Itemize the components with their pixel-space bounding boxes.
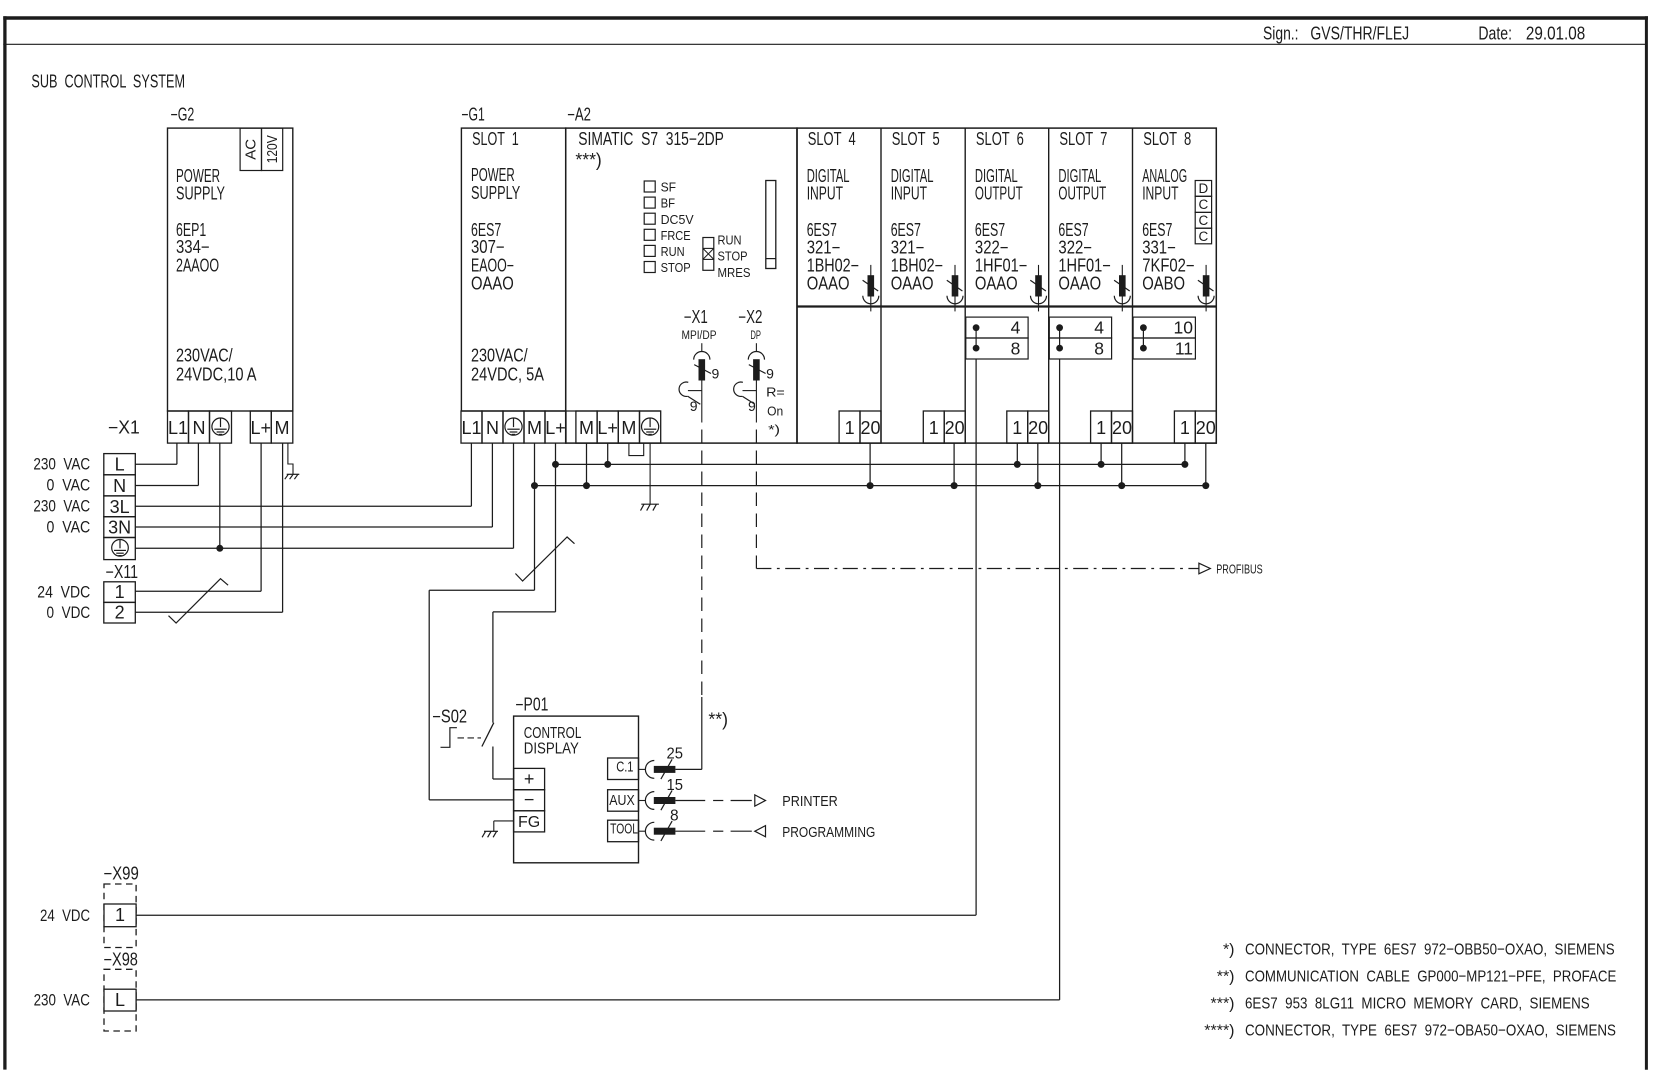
wire 3L: X1.3L to G1.L1 [135, 443, 471, 506]
svg-text:D: D [1199, 181, 1209, 196]
svg-text:INPUT: INPUT [807, 184, 843, 204]
svg-text:M: M [527, 418, 542, 438]
svg-text:L1: L1 [168, 418, 188, 438]
terminal L1 of G2 [168, 411, 189, 443]
svg-text:1HF01−: 1HF01− [1058, 256, 1110, 276]
pin label 9 at X2 socket [748, 398, 756, 414]
svg-text:SLOT 1: SLOT 1 [472, 129, 519, 149]
net label 230 VAC (L) [33, 455, 90, 473]
terminal PE of A2 (earth) [640, 411, 661, 443]
net label 24 VDC (X99) [40, 907, 90, 925]
svg-text:L+: L+ [597, 418, 618, 438]
net label PROFIBUS [1216, 562, 1263, 577]
svg-text:−X11: −X11 [106, 562, 139, 582]
svg-text:−X98: −X98 [104, 950, 138, 970]
svg-text:1: 1 [1012, 418, 1022, 438]
svg-text:322−: 322− [975, 238, 1009, 258]
svg-text:L1: L1 [461, 418, 481, 438]
svg-text:BF: BF [661, 196, 676, 211]
arrow to PROGRAMMING [755, 826, 766, 837]
svg-text:OAAO: OAAO [807, 274, 850, 294]
svg-text:230VAC/: 230VAC/ [471, 346, 528, 366]
port C.1 of P01 [608, 758, 676, 780]
wire PE: X1.PE to G2.PE and G1.PE [135, 443, 513, 548]
junction SLOT5.20 [951, 482, 958, 489]
wire SLOT8.1 to L+ bus [1184, 443, 1186, 464]
port AUX of P01 [608, 790, 676, 812]
svg-text:−P01: −P01 [515, 695, 548, 715]
svg-text:MPI/DP: MPI/DP [682, 330, 717, 342]
A2 mode switch RUN/STOP/MRES [703, 233, 751, 280]
wire SLOT4.20 to M bus [869, 443, 871, 486]
terminal strip X1 [104, 418, 140, 560]
pin count 15 at AUX [667, 777, 684, 794]
svg-text:9: 9 [748, 398, 756, 414]
terminal + of P01 [514, 768, 545, 789]
net label 230 VAC (3L) [33, 497, 90, 515]
svg-text:SF: SF [661, 180, 677, 195]
wire SLOT5.20 to M bus [953, 443, 955, 486]
svg-text:230VAC/: 230VAC/ [176, 346, 233, 366]
svg-text:AUX: AUX [609, 792, 634, 809]
wire SLOT8.20 to M bus [1205, 443, 1207, 486]
svg-text:RUN: RUN [661, 244, 685, 259]
svg-text:20: 20 [860, 418, 880, 438]
svg-text:N: N [113, 476, 126, 496]
svg-text:20: 20 [945, 418, 965, 438]
svg-text:R=: R= [766, 386, 785, 400]
svg-text:321−: 321− [891, 238, 925, 258]
svg-text:24 VDC: 24 VDC [40, 907, 90, 925]
junction G1.M on M bus [531, 482, 538, 489]
terminal 20 of SLOT 7 [1112, 411, 1133, 443]
wire X98.L to SLOT7 output 8 [136, 999, 1060, 1001]
svg-text:−G2: −G2 [171, 104, 195, 124]
wire 3N: X1.3N to G1.N [135, 443, 492, 527]
svg-text:20: 20 [1028, 418, 1048, 438]
svg-text:0 VAC: 0 VAC [47, 476, 91, 494]
terminal M of G1 [524, 411, 545, 443]
junction SLOT7.1 [1098, 461, 1105, 468]
svg-text:AC: AC [243, 139, 260, 160]
svg-text:L+: L+ [545, 418, 566, 438]
svg-text:Sign.:: Sign.: [1263, 24, 1299, 44]
footnote ***) memory card [1210, 995, 1589, 1012]
svg-text:L: L [115, 455, 125, 475]
svg-text:STOP: STOP [718, 249, 748, 264]
wire L: X1.L to G2.L1 [135, 443, 177, 464]
bus rail L+ 24V [556, 463, 1186, 465]
svg-text:OAAO: OAAO [891, 274, 934, 294]
switch S02 (NO contact) [432, 707, 513, 779]
svg-text:SIMATIC S7 315−2DP: SIMATIC S7 315−2DP [578, 129, 724, 149]
svg-text:PRINTER: PRINTER [782, 794, 838, 810]
ground wire at P01.FG [482, 821, 513, 837]
svg-text:DC5V: DC5V [661, 212, 694, 227]
wire A2.M to M bus [586, 443, 588, 486]
svg-text:STOP: STOP [661, 260, 691, 275]
svg-text:FG: FG [518, 814, 540, 831]
pin label 9 at X1 plug [712, 366, 720, 382]
IO module SLOT 4 (DIGITAL INPUT) text [807, 129, 859, 293]
wire A2.L+ to L+ bus [607, 443, 609, 464]
svg-text:*): *) [1223, 941, 1235, 958]
svg-text:**): **) [708, 710, 728, 730]
svg-text:M: M [579, 418, 594, 438]
terminal 1 of SLOT 7 [1091, 411, 1112, 443]
svg-text:CONTROL: CONTROL [524, 725, 582, 742]
svg-text:OAAO: OAAO [471, 274, 514, 294]
svg-text:24VDC, 5A: 24VDC, 5A [471, 364, 544, 384]
terminal strip X11 [104, 562, 138, 623]
terminal L+ of G2 [250, 411, 271, 443]
svg-text:OAAO: OAAO [975, 274, 1018, 294]
svg-text:9: 9 [712, 366, 720, 382]
address tags 4/8 of SLOT 6 with wire down [966, 317, 1028, 915]
svg-text:−: − [524, 789, 535, 809]
svg-text:−X1: −X1 [684, 307, 708, 327]
front connector plug of SLOT 4 [863, 265, 879, 312]
port TOOL of P01 [608, 820, 676, 842]
terminal FG of P01 [514, 811, 545, 832]
svg-text:1BH02−: 1BH02− [891, 256, 943, 276]
terminal 20 of SLOT 4 [860, 411, 881, 443]
svg-text:FRCE: FRCE [661, 228, 691, 243]
power supply G1 (SLOT 1, 6ES7 307-EAOO-OAAO) [461, 104, 565, 411]
terminal 1 of SLOT 6 [1007, 411, 1028, 443]
net label 0 VAC (3N) [47, 518, 91, 536]
control display P01 [514, 695, 639, 863]
bus rail M 0V [535, 485, 1206, 487]
A2 micro memory card slot [766, 181, 776, 269]
connector X1 MPI/DP of A2 [679, 307, 717, 423]
cable marker across X11 feed wires [169, 579, 229, 623]
IO module SLOT 8 (ANALOG INPUT) text [1142, 129, 1194, 293]
svg-text:24VDC,10 A: 24VDC,10 A [176, 364, 257, 384]
node: drawing title SUB CONTROL SYSTEM [31, 72, 185, 92]
svg-text:***): ***) [1210, 995, 1234, 1012]
connector X2 DP of A2 [734, 307, 766, 423]
terminal 20 of SLOT 8 [1195, 411, 1216, 443]
terminal PE of G1 (earth) [503, 411, 524, 443]
terminal 1 of SLOT 5 [923, 411, 944, 443]
svg-text:321−: 321− [807, 238, 841, 258]
svg-text:6ES7 953 8LG11 MICRO MEMOR: 6ES7 953 8LG11 MICRO MEMORY CARD, SIEMEN… [1245, 995, 1590, 1012]
junction SLOT6.1 [1014, 461, 1021, 468]
junction SLOT8.20 [1202, 482, 1209, 489]
svg-text:SUPPLY: SUPPLY [471, 183, 520, 203]
rack backplane divider line [797, 305, 1216, 307]
terminal M (1st) of A2 [576, 411, 597, 443]
printer cable from AUX [675, 800, 751, 802]
svg-text:−A2: −A2 [567, 104, 591, 124]
svg-text:−X2: −X2 [738, 307, 762, 327]
front connector plug of SLOT 7 [1114, 265, 1130, 312]
terminal 1 of SLOT 8 [1174, 411, 1195, 443]
svg-text:C.1: C.1 [616, 759, 633, 776]
svg-text:4: 4 [1011, 318, 1021, 338]
svg-text:DP: DP [750, 330, 761, 342]
svg-text:***): ***) [575, 150, 601, 170]
svg-text:230 VAC: 230 VAC [33, 455, 90, 473]
terminal X98 (230 VAC feed) [104, 950, 138, 1031]
wire SLOT7.20 to M bus [1121, 443, 1123, 486]
svg-text:230 VAC: 230 VAC [33, 497, 90, 515]
svg-text:120V: 120V [264, 135, 281, 163]
MPI cable from X1 to C.1 [675, 430, 701, 770]
svg-text:RUN: RUN [718, 233, 742, 248]
svg-text:8: 8 [1011, 339, 1021, 359]
junction G1.L+ on L+ bus [552, 461, 559, 468]
wire G1.M down to control display minus [429, 443, 534, 800]
svg-text:**): **) [1217, 969, 1235, 986]
IO module rack slots 4-8 outline [797, 128, 1216, 443]
svg-text:SLOT 4: SLOT 4 [808, 129, 856, 149]
terminal N of G1 [482, 411, 503, 443]
power supply G2 (6EP1 334-2AAOO) [168, 104, 293, 411]
net label 24 VDC (X11.1) [37, 583, 90, 601]
pin label 9 at X2 plug [766, 366, 774, 382]
svg-text:−S02: −S02 [432, 707, 467, 727]
svg-text:230 VAC: 230 VAC [34, 991, 90, 1009]
wire SLOT7.1 to L+ bus [1100, 443, 1102, 464]
net label 0 VAC (N) [47, 476, 91, 494]
pin label 9 at X1 socket [690, 398, 698, 414]
svg-text:SLOT 6: SLOT 6 [976, 129, 1024, 149]
svg-text:1: 1 [115, 905, 125, 925]
svg-text:3L: 3L [110, 497, 130, 517]
svg-text:POWER: POWER [471, 165, 515, 185]
svg-text:SLOT 5: SLOT 5 [892, 129, 940, 149]
svg-text:INPUT: INPUT [1142, 184, 1178, 204]
svg-text:15: 15 [667, 777, 684, 794]
arrow to PRINTER [755, 795, 766, 806]
svg-text:L+: L+ [251, 418, 272, 438]
svg-text:OAAO: OAAO [1058, 274, 1101, 294]
note **) communication cable [708, 710, 728, 730]
svg-text:2AAOO: 2AAOO [176, 256, 219, 276]
terminal M of G2 [271, 411, 293, 443]
wire G1.L+ down to switch S02 [493, 443, 556, 723]
terminal - of P01 [514, 789, 545, 811]
terminal X99 (24 VDC feed) [104, 864, 139, 948]
svg-text:1HF01−: 1HF01− [975, 256, 1027, 276]
svg-text:2: 2 [115, 603, 125, 623]
svg-text:7KF02−: 7KF02− [1142, 256, 1194, 276]
svg-text:334−: 334− [176, 237, 210, 257]
svg-text:PROFIBUS: PROFIBUS [1216, 562, 1263, 577]
address tags 10/11 of SLOT 8 [1133, 317, 1195, 359]
A2 status LEDs SF/BF/DC5V/FRCE/RUN/STOP [644, 180, 694, 276]
cable marker across control display supply wires [515, 537, 574, 581]
svg-text:On: On [767, 404, 783, 418]
junction A2.M on M bus [583, 482, 590, 489]
net label 230 VAC (X98) [34, 991, 90, 1009]
svg-text:−X1: −X1 [108, 418, 140, 438]
svg-text:GVS/THR/FLEJ: GVS/THR/FLEJ [1310, 24, 1409, 44]
svg-text:CONNECTOR, TYPE 6ES7 972−OB: CONNECTOR, TYPE 6ES7 972−OBB50−OXAO, SIE… [1245, 941, 1615, 958]
svg-text:1: 1 [1180, 418, 1190, 438]
svg-text:C: C [1199, 229, 1209, 244]
wire X99.1 to SLOT6 output 8 [136, 914, 976, 916]
terminal L+ of A2 [597, 411, 618, 443]
svg-text:SUB CONTROL SYSTEM: SUB CONTROL SYSTEM [31, 72, 185, 92]
svg-text:COMMUNICATION CABLE GP000−MP: COMMUNICATION CABLE GP000−MP121−PFE, PRO… [1245, 969, 1616, 986]
wire loop A2.M2 to A2.PE [629, 443, 644, 456]
front connector plug of SLOT 5 [947, 265, 963, 312]
svg-text:N: N [193, 418, 206, 438]
svg-text:M: M [275, 418, 290, 438]
svg-text:PROGRAMMING: PROGRAMMING [782, 825, 875, 841]
svg-text:8: 8 [1094, 339, 1104, 359]
svg-text:OUTPUT: OUTPUT [1058, 184, 1106, 204]
ground stub at G2.M [285, 443, 300, 479]
svg-text:TOOL: TOOL [610, 821, 638, 838]
label PRINTER [782, 794, 838, 810]
svg-text:20: 20 [1196, 418, 1216, 438]
ground wire at A2.PE [641, 443, 659, 511]
svg-text:*): *) [768, 423, 780, 437]
svg-text:0 VDC: 0 VDC [47, 604, 91, 622]
svg-text:1BH02−: 1BH02− [807, 256, 859, 276]
pin count 25 at C.1 [667, 746, 684, 763]
terminal M (2nd) of A2 [618, 411, 639, 443]
svg-text:4: 4 [1094, 318, 1104, 338]
svg-text:1: 1 [929, 418, 939, 438]
terminal N of G2 [189, 411, 210, 443]
svg-text:24 VDC: 24 VDC [37, 583, 90, 601]
terminal L+ of G1 [545, 411, 566, 443]
svg-text:11: 11 [1175, 339, 1193, 359]
wire N: X1.N to G2.N [135, 443, 198, 485]
svg-text:−G1: −G1 [461, 104, 484, 124]
svg-text:20: 20 [1112, 418, 1132, 438]
junction SLOT6.20 [1034, 482, 1041, 489]
front connector plug of SLOT 6 [1030, 265, 1046, 312]
svg-text:1: 1 [1096, 418, 1106, 438]
label PROGRAMMING [782, 825, 875, 841]
PROFIBUS arrow [1199, 563, 1210, 574]
front connector plug of SLOT 8 [1198, 265, 1214, 312]
svg-text:−X99: −X99 [104, 864, 139, 884]
svg-text:9: 9 [766, 366, 774, 382]
wire 24VDC: G2.L+ to X11.1 [135, 443, 261, 591]
note R= On *) at X2 [766, 386, 785, 437]
svg-text:307−: 307− [471, 237, 505, 257]
svg-text:331−: 331− [1142, 238, 1176, 258]
pin count 8 at TOOL [670, 808, 679, 825]
junction A2.L+ on L+ bus [604, 461, 611, 468]
junction PE at G2 [216, 545, 223, 552]
wire SLOT6.1 to L+ bus [1016, 443, 1018, 464]
terminal 20 of SLOT 6 [1028, 411, 1049, 443]
net label 0 VDC (X11.2) [47, 604, 91, 622]
footnote *) connector type [1223, 941, 1615, 958]
junction SLOT7.20 [1118, 482, 1125, 489]
IO module SLOT 6 (DIGITAL OUTPUT) text [975, 129, 1027, 293]
svg-text:N: N [486, 418, 499, 438]
svg-text:INPUT: INPUT [891, 184, 927, 204]
footnote **) communication cable [1217, 969, 1617, 986]
wire SLOT6.20 to M bus [1037, 443, 1039, 486]
address tags 4/8 of SLOT 7 with wire down [1049, 317, 1111, 1000]
svg-text:****): ****) [1204, 1022, 1234, 1039]
svg-text:8: 8 [670, 808, 679, 825]
svg-text:MRES: MRES [718, 265, 751, 280]
svg-text:OABO: OABO [1142, 274, 1185, 294]
svg-text:29.01.08: 29.01.08 [1526, 24, 1585, 44]
svg-text:+: + [524, 769, 535, 789]
CPU A2 (SIMATIC S7 315-2DP) [566, 104, 797, 443]
terminal L1 of G1 [461, 411, 482, 443]
svg-text:C: C [1199, 213, 1209, 228]
svg-text:0 VAC: 0 VAC [47, 518, 91, 536]
IO module SLOT 7 (DIGITAL OUTPUT) text [1058, 129, 1110, 293]
svg-text:10: 10 [1174, 318, 1194, 338]
svg-text:DISPLAY: DISPLAY [524, 741, 579, 758]
PROFIBUS cable from X2 [756, 430, 1199, 569]
svg-text:9: 9 [690, 398, 698, 414]
svg-text:M: M [621, 418, 636, 438]
programming cable from TOOL [675, 830, 751, 832]
svg-text:1: 1 [845, 418, 855, 438]
svg-text:CONNECTOR, TYPE 6ES7 972−OB: CONNECTOR, TYPE 6ES7 972−OBA50−OXAO, SIE… [1245, 1022, 1616, 1039]
svg-text:Date:: Date: [1478, 24, 1512, 44]
terminal 20 of SLOT 5 [944, 411, 965, 443]
svg-text:OUTPUT: OUTPUT [975, 184, 1023, 204]
marking DCCC on SLOT 8 [1195, 181, 1211, 244]
svg-text:322−: 322− [1058, 238, 1092, 258]
wire 0VDC: G2.M to X11.2 [135, 443, 282, 612]
IO module SLOT 5 (DIGITAL INPUT) text [891, 129, 943, 293]
svg-text:1: 1 [115, 582, 125, 602]
svg-text:3N: 3N [108, 518, 131, 538]
junction SLOT8.1 [1181, 461, 1188, 468]
svg-text:L: L [115, 990, 125, 1010]
terminal PE of G2 (earth) [210, 411, 232, 443]
terminal 1 of SLOT 4 [839, 411, 860, 443]
svg-text:SUPPLY: SUPPLY [176, 184, 225, 204]
svg-text:C: C [1199, 197, 1209, 212]
svg-text:25: 25 [667, 746, 684, 763]
junction SLOT4.20 [867, 482, 874, 489]
svg-text:SLOT 7: SLOT 7 [1059, 129, 1107, 149]
svg-text:SLOT 8: SLOT 8 [1143, 129, 1191, 149]
